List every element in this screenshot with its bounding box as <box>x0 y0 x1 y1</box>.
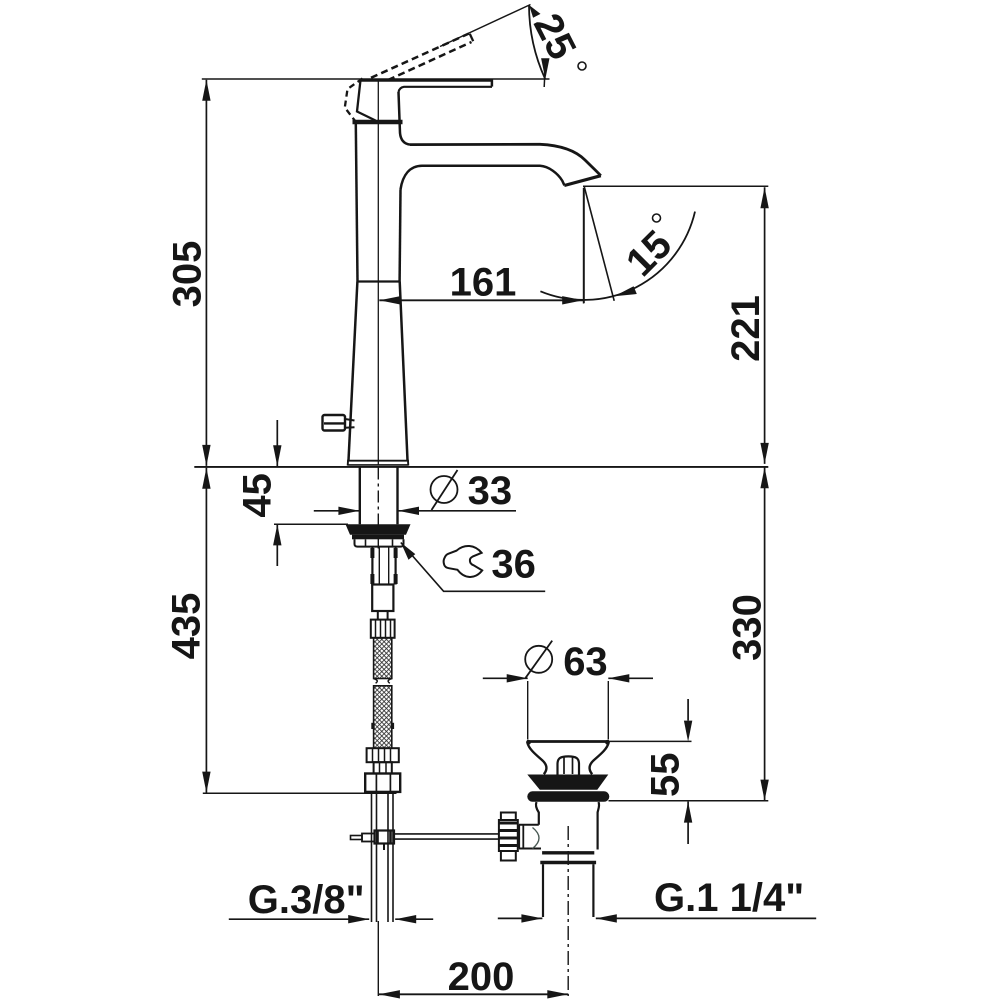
hose end hex nut <box>365 774 400 792</box>
dim diameter33 line <box>314 510 360 512</box>
icon wrench <box>444 546 482 577</box>
faucet handle dashed tilted blade bottom <box>388 42 472 80</box>
wire faucet centerline shank dash-dot <box>377 468 379 550</box>
hose fitting hex <box>372 585 393 612</box>
svg-text:435: 435 <box>165 593 209 660</box>
faucet flange washer <box>346 524 411 534</box>
svg-text:221: 221 <box>724 295 768 362</box>
svg-text:33: 33 <box>468 469 512 513</box>
hose break symbol <box>374 679 392 684</box>
drain dome right curve <box>590 743 609 774</box>
hose ridge segment <box>374 762 392 773</box>
drain rod knurled nut <box>499 813 518 861</box>
wire right ext line at outlet level <box>583 185 768 187</box>
faucet column right edge upper <box>398 190 401 282</box>
dim G38 line <box>229 918 369 920</box>
dim 15deg arc <box>540 212 695 300</box>
drain tailpipe <box>543 864 593 917</box>
wire 330 bottom ext <box>609 800 769 802</box>
svg-text:330: 330 <box>726 594 770 661</box>
wire faucet centerline lower <box>377 921 379 996</box>
faucet column joint line <box>358 280 400 282</box>
svg-text:305: 305 <box>166 241 210 308</box>
wire 45 bottom ext <box>274 523 348 525</box>
faucet shank below deck <box>359 468 361 525</box>
dim 161 line <box>379 299 583 301</box>
svg-text:161: 161 <box>450 261 517 305</box>
dim G114 line <box>498 917 543 919</box>
dim diameter63 line <box>483 677 528 679</box>
faucet base cap <box>348 461 409 466</box>
faucet mounting nut <box>352 535 404 547</box>
symbol diameter33 <box>431 476 458 503</box>
wire 15deg slanted ray <box>584 187 614 301</box>
wire 55 top ext (flange level) <box>609 740 692 742</box>
hose braid segment 1 <box>374 638 392 679</box>
drain compression joint bands <box>540 853 596 863</box>
wire deck line <box>194 466 768 468</box>
dim 435 line <box>205 468 207 793</box>
leader 36 wrench <box>401 543 416 560</box>
dim 45 line <box>276 420 278 466</box>
hose braid segment 2 <box>373 686 392 748</box>
faucet handle joint bar <box>353 120 403 125</box>
dim 221 line <box>764 187 766 464</box>
hose crimp collar 2 <box>367 748 399 762</box>
faucet column taper right <box>400 282 408 461</box>
svg-text:45: 45 <box>236 473 280 518</box>
hose tails <box>372 792 394 922</box>
faucet handle wedge solid <box>357 80 376 121</box>
wire 435 bottom ext <box>203 792 397 794</box>
faucet column left edge upper <box>356 124 358 282</box>
svg-text:G.1 1/4": G.1 1/4" <box>654 876 804 920</box>
faucet head left edge <box>399 92 411 145</box>
wire top reference line <box>202 78 550 80</box>
drain flange top line <box>527 740 609 743</box>
wire 25deg ray <box>440 5 531 47</box>
svg-text:36: 36 <box>491 542 536 586</box>
hose neck <box>378 611 388 620</box>
faucet column taper left <box>349 282 358 461</box>
drain knob <box>558 756 580 774</box>
faucet spout underside <box>401 166 565 190</box>
wire 161 right ext vertical <box>583 188 585 304</box>
wire drain centerline dash-dot <box>567 826 569 996</box>
drain body neck <box>536 802 599 850</box>
hose crimp collar 1 <box>371 620 395 638</box>
svg-text:200: 200 <box>448 955 515 999</box>
dim 200 line <box>379 993 568 995</box>
svg-text:G.3/8": G.3/8" <box>248 878 365 922</box>
svg-text:55: 55 <box>644 753 688 798</box>
faucet outlet face <box>564 176 601 186</box>
drain dome left curve <box>528 743 547 774</box>
symbol 25deg degree circle <box>578 62 586 70</box>
dim 330 line <box>764 467 766 800</box>
dim 25deg arc <box>529 5 545 79</box>
faucet handle dashed tilted blade end cap <box>470 34 473 41</box>
svg-text:63: 63 <box>563 640 608 684</box>
faucet handle dashed tilted wedge <box>345 79 363 122</box>
wire 15deg vertical ray <box>583 188 585 303</box>
popup rod horizontal <box>394 834 499 839</box>
faucet handle dashed tilted blade top <box>371 34 469 78</box>
dim 55 line <box>687 699 689 721</box>
popup rod clevis <box>351 831 395 851</box>
dim 305 line <box>205 80 207 466</box>
drain side port <box>519 825 541 849</box>
symbol 15deg degree circle <box>653 214 661 222</box>
wire faucet centerline upper <box>377 79 379 465</box>
faucet spout top and tip <box>410 144 601 175</box>
faucet lever blade <box>361 79 492 92</box>
drain gasket band <box>527 791 609 802</box>
hose tube section <box>372 547 395 585</box>
wire diameter63 ext verticals <box>527 681 529 740</box>
symbol diameter63 <box>525 646 552 673</box>
drain plug trapezoid <box>527 775 608 790</box>
faucet side knob <box>323 415 355 431</box>
